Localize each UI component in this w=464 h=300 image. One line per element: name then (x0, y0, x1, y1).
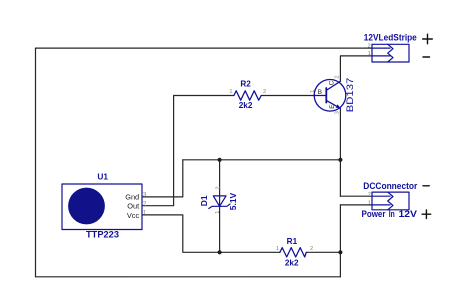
node junction D1 bottom (218, 250, 222, 254)
svg-text:D1: D1 (199, 195, 209, 206)
svg-text:Gnd: Gnd (125, 193, 139, 202)
svg-text:3: 3 (334, 111, 340, 114)
svg-text:1: 1 (276, 246, 279, 252)
svg-text:TTP223: TTP223 (86, 229, 119, 240)
svg-text:5.1V: 5.1V (228, 192, 238, 210)
label - minus DC (423, 185, 429, 187)
diode D1 zener 5.1V (199, 186, 238, 213)
wire top 12V rail (36, 47, 373, 49)
node junction D1 top (218, 158, 222, 162)
svg-text:1: 1 (310, 90, 316, 93)
svg-text:2: 2 (263, 89, 266, 95)
svg-text:R1: R1 (287, 237, 298, 246)
svg-text:1: 1 (368, 51, 371, 57)
label - minus top (423, 56, 430, 58)
svg-text:12VLedStripe: 12VLedStripe (364, 32, 417, 43)
wire U1 Gnd pin3 (142, 160, 183, 197)
IC U1 TTP223 touch module (62, 171, 147, 240)
svg-text:2: 2 (215, 186, 221, 189)
svg-text:U1: U1 (97, 171, 108, 181)
svg-text:1: 1 (229, 89, 232, 95)
svg-text:Out: Out (127, 202, 139, 211)
label + plus DC (422, 210, 431, 219)
svg-text:1: 1 (215, 211, 221, 214)
transistor Q1 BD137 (310, 75, 355, 114)
wire bottom (36, 276, 341, 278)
svg-text:1: 1 (143, 211, 147, 217)
svg-text:Vcc: Vcc (127, 211, 140, 220)
svg-text:2: 2 (310, 246, 313, 252)
svg-text:PowerIn12V: PowerIn12V (362, 209, 418, 219)
svg-text:2: 2 (368, 44, 371, 50)
svg-text:2: 2 (368, 192, 371, 198)
wire DC pin1 (340, 204, 372, 206)
wire R1 to right (306, 251, 340, 253)
wire gnd mid horizontal (183, 159, 341, 161)
svg-text:2: 2 (334, 75, 340, 78)
wire U1 Vcc pin1 (142, 215, 280, 252)
wire U1 Out pin2 (142, 96, 234, 206)
wire left vertical (35, 48, 37, 277)
svg-text:2: 2 (143, 201, 147, 207)
wire R2 to base (261, 95, 314, 97)
node junction R1 right (338, 250, 342, 254)
wire DC pin2 (340, 195, 372, 197)
svg-text:E: E (329, 104, 336, 109)
svg-text:B: B (318, 89, 322, 96)
label + plus top (423, 34, 433, 44)
svg-text:2k2: 2k2 (239, 101, 253, 110)
connector DCConnector (362, 181, 418, 219)
svg-text:BD137: BD137 (345, 78, 355, 113)
resistor R1 (276, 237, 313, 267)
svg-text:DCConnector: DCConnector (363, 181, 417, 192)
svg-text:3: 3 (143, 193, 147, 199)
svg-text:1: 1 (368, 200, 371, 206)
svg-text:2k2: 2k2 (285, 258, 299, 267)
wire D1 vertical (219, 160, 221, 253)
wire collector to led pin1 (340, 56, 372, 81)
node junction emitter gnd (338, 158, 342, 162)
connector 12VLedStripe (364, 32, 417, 62)
svg-text:C: C (329, 80, 336, 85)
wire right vertical lower (339, 205, 341, 277)
wire emitter vertical (339, 108, 341, 196)
resistor R2 (229, 80, 266, 111)
svg-text:R2: R2 (240, 80, 251, 89)
